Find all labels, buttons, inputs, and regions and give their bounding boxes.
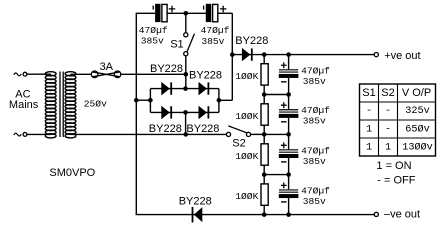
svg-text:SM0VPO: SM0VPO xyxy=(49,167,95,179)
svg-text:1ØØK: 1ØØK xyxy=(235,151,258,162)
transformer T1 secondary winding xyxy=(65,72,76,138)
svg-text:BY228: BY228 xyxy=(179,195,212,207)
fuse F1 3A xyxy=(91,71,121,78)
capacitor C4 470uf 385v (stage 2) xyxy=(279,102,299,122)
diode D6 BY228 -ve rail xyxy=(192,207,203,223)
wire S2 to resistor column xyxy=(251,133,265,135)
wire bottom -ve rail xyxy=(136,214,375,216)
wire middle stub from top node to S1 xyxy=(185,13,187,32)
svg-text:BY228: BY228 xyxy=(149,123,182,135)
transformer T1 core xyxy=(60,72,63,138)
junction node dots xyxy=(134,11,291,217)
resistor R2 100K xyxy=(261,104,268,125)
svg-text:V O/P: V O/P xyxy=(402,87,431,99)
switch S1 xyxy=(184,33,195,56)
switch S2 xyxy=(226,126,250,137)
wire resistor column segments xyxy=(263,55,265,215)
+ve out terminal xyxy=(374,53,378,57)
wire S1 bottom to diode row 1 xyxy=(185,56,187,89)
svg-text:1ØØK: 1ØØK xyxy=(235,111,258,122)
capacitor C6 470uf 385v (stage 4) xyxy=(279,182,299,202)
svg-text:47Øµf: 47Øµf xyxy=(301,185,330,196)
wire diode row 2 xyxy=(150,111,219,113)
svg-text:BY228: BY228 xyxy=(186,123,219,135)
diode D1 BY228 row1 left xyxy=(161,82,172,96)
svg-text:S1: S1 xyxy=(362,87,375,99)
diode D3 BY228 row2 left xyxy=(161,106,172,120)
resistor R1 100K xyxy=(261,64,268,85)
switch table xyxy=(360,84,436,156)
svg-text:-: - xyxy=(385,124,391,135)
wire bridge left link xyxy=(149,89,151,113)
capacitor C2 470uf 385v (top right) xyxy=(204,4,227,22)
svg-text:3A: 3A xyxy=(100,61,114,73)
diode D2 BY228 row1 right xyxy=(199,82,210,96)
svg-text:385v: 385v xyxy=(201,36,224,47)
svg-text:–ve out: –ve out xyxy=(384,208,420,220)
transformer T1 primary winding xyxy=(45,72,56,138)
svg-text:Mains: Mains xyxy=(9,99,39,111)
AC wave symbol bottom xyxy=(14,133,21,136)
svg-text:1: 1 xyxy=(366,124,372,135)
svg-text:S1: S1 xyxy=(170,39,183,51)
svg-text:385v: 385v xyxy=(141,36,164,47)
wire capacitor column segments xyxy=(288,55,290,215)
svg-text:385v: 385v xyxy=(303,196,326,207)
AC mains terminal top xyxy=(23,72,27,76)
capacitor C5 470uf 385v (stage 3) xyxy=(279,142,299,162)
svg-text:325v: 325v xyxy=(405,106,429,117)
svg-text:S2: S2 xyxy=(381,87,394,99)
diode D5 BY228 +ve rail xyxy=(242,48,253,61)
svg-text:25Øv: 25Øv xyxy=(84,98,107,109)
resistor R4 100K xyxy=(261,184,268,205)
svg-text:1ØØK: 1ØØK xyxy=(235,71,258,82)
AC wave symbol top xyxy=(14,73,21,76)
svg-text:47Øµf: 47Øµf xyxy=(301,145,330,156)
svg-text:- = OFF: - = OFF xyxy=(377,175,415,187)
svg-text:+ve out: +ve out xyxy=(384,50,420,62)
svg-text:47Øµf: 47Øµf xyxy=(301,65,330,76)
svg-text:-: - xyxy=(366,106,372,117)
wire bridge right tap xyxy=(219,99,232,101)
svg-text:385v: 385v xyxy=(303,156,326,167)
svg-text:1: 1 xyxy=(385,142,391,153)
svg-text:47Øµf: 47Øµf xyxy=(139,25,168,36)
svg-text:13ØØv: 13ØØv xyxy=(402,141,433,153)
wire +ve rail xyxy=(232,54,374,56)
svg-text:BY228: BY228 xyxy=(235,35,268,47)
wire top rail right segment xyxy=(218,12,232,14)
wire primary top terminal xyxy=(27,73,51,75)
wire primary bottom terminal xyxy=(27,133,51,135)
wire left vertical (AC phase riser) xyxy=(135,13,137,215)
wire secondary top to fuse xyxy=(71,73,92,75)
svg-text:1: 1 xyxy=(366,142,372,153)
svg-text:-: - xyxy=(385,106,391,117)
svg-text:47Øµf: 47Øµf xyxy=(201,25,230,36)
capacitor C1 470uf 385v (top left) xyxy=(153,4,175,22)
-ve out terminal xyxy=(374,212,378,216)
svg-text:65Øv: 65Øv xyxy=(405,123,429,135)
svg-text:BY228: BY228 xyxy=(189,70,222,82)
wire top rail middle segment xyxy=(167,12,206,14)
diode D4 BY228 row2 right xyxy=(199,106,210,120)
resistor R3 100K xyxy=(261,144,268,165)
svg-text:1ØØK: 1ØØK xyxy=(235,191,258,202)
wire diode row 2 middle to S2 net xyxy=(185,112,187,134)
wire bridge left tap xyxy=(136,99,150,101)
wire right riser cap chain to bridge xyxy=(231,13,233,100)
AC mains terminal bottom xyxy=(23,133,27,137)
wire top rail left segment xyxy=(136,12,155,14)
svg-text:47Øµf: 47Øµf xyxy=(301,105,330,116)
svg-text:1 = ON: 1 = ON xyxy=(376,160,411,172)
svg-text:S2: S2 xyxy=(232,138,245,150)
wire bridge right link xyxy=(218,89,220,113)
capacitor C3 470uf 385v (stage 1) xyxy=(279,62,299,82)
wire fuse to middle column xyxy=(121,73,186,75)
wire stage junction links xyxy=(264,95,288,175)
svg-text:385v: 385v xyxy=(303,116,326,127)
wire diode row 1 xyxy=(150,88,219,90)
svg-text:385v: 385v xyxy=(303,76,326,87)
wire secondary bottom to S2 xyxy=(71,133,227,135)
svg-text:BY228: BY228 xyxy=(150,63,183,75)
